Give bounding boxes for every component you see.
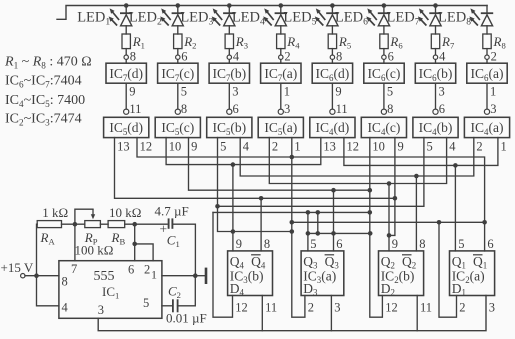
wire pin1 to ground — [162, 275, 195, 277]
node rail junction — [382, 3, 387, 8]
pin number 11 — [129, 102, 141, 116]
wire — [280, 49, 282, 55]
svg-text:2: 2 — [284, 50, 290, 64]
LED8 light arrow 2 — [469, 16, 478, 25]
label RB — [111, 230, 126, 247]
wire rail Q3bar: IC5(c).9 to IC4(c).10 — [189, 138, 370, 191]
pin number 12 — [235, 301, 248, 315]
pin number 5 — [458, 237, 464, 251]
node junction Q4 — [231, 162, 236, 167]
label R4 — [286, 34, 300, 51]
label R6 — [389, 34, 403, 51]
svg-text:IC6~IC7:7404: IC6~IC7:7404 — [5, 74, 82, 90]
pin terminal — [278, 109, 283, 114]
pin number 3 — [490, 102, 496, 116]
pin number 1 — [151, 268, 157, 282]
node rail junction — [124, 3, 129, 8]
wire Q4 riser — [232, 165, 234, 251]
inverter IC6(a) — [467, 63, 507, 83]
svg-text:6: 6 — [233, 102, 239, 116]
label C1 plus — [160, 222, 168, 237]
pin number 3 — [98, 303, 104, 317]
svg-text:8: 8 — [419, 237, 425, 251]
wire — [383, 49, 385, 55]
svg-text:11: 11 — [420, 301, 432, 315]
wire C2 to ground node — [178, 276, 196, 306]
svg-text:9: 9 — [392, 237, 398, 251]
pin number 2 — [284, 50, 290, 64]
resistor RB — [108, 221, 125, 228]
svg-text:11: 11 — [129, 102, 141, 116]
wire rail Q3 — [213, 211, 370, 213]
pin number 2 — [272, 140, 278, 154]
wire rail Q4bar: IC5(d).13 rail — [115, 138, 395, 199]
pin number 4 — [62, 301, 69, 315]
pin terminal 8 — [330, 55, 334, 59]
svg-text:6: 6 — [487, 237, 493, 251]
LED5 light arrow 2 — [315, 16, 324, 25]
svg-text:4: 4 — [62, 301, 69, 315]
wire rail Q4: IC5(c).10 to IC4(d).13 — [166, 138, 321, 165]
pin number 1 — [294, 140, 300, 154]
label D1 — [452, 281, 466, 298]
wire — [435, 6, 437, 14]
wire — [280, 6, 282, 14]
svg-text:3: 3 — [232, 85, 238, 99]
pin number 6 — [336, 237, 342, 251]
wire rail IC4(b).5 — [218, 138, 424, 207]
svg-text:3: 3 — [490, 102, 496, 116]
node rail junction — [433, 3, 438, 8]
wire Q2 riser — [388, 184, 390, 251]
pin number 8 — [336, 50, 342, 64]
wire pin5 to C2 — [162, 305, 172, 307]
LED3 light arrow 1 — [213, 8, 223, 20]
label IC7(c) — [161, 66, 194, 83]
wire IC4(c).10 / D2 feedback — [370, 138, 383, 318]
svg-text:10: 10 — [169, 140, 182, 154]
pin number 9 — [236, 237, 242, 251]
node junction Q2 jog — [387, 233, 392, 238]
pin number 6 — [181, 50, 187, 64]
wire to ground symbol — [195, 275, 205, 277]
node junction R6 end — [368, 188, 373, 193]
wire — [125, 6, 127, 14]
wire C1 to ground node — [172, 224, 195, 276]
node junction Q2bar — [414, 174, 419, 179]
svg-text:9: 9 — [236, 237, 242, 251]
wire rail Q2bar: IC5(b).4 to IC4(a).2 — [240, 138, 474, 176]
label Q1 bar — [473, 254, 483, 256]
wire stub — [317, 212, 319, 233]
svg-text:0.01 µF: 0.01 µF — [166, 311, 207, 326]
pin number 4 — [449, 140, 456, 154]
nand gate IC5(b) — [207, 117, 252, 137]
pin number 9 — [392, 237, 398, 251]
label IC3(a) — [303, 269, 336, 286]
svg-text:4: 4 — [439, 50, 446, 64]
pin number 2 — [144, 263, 150, 277]
label Q4bar text — [251, 254, 266, 271]
svg-text:8: 8 — [181, 102, 187, 116]
inverter IC7(b) — [209, 63, 249, 83]
LED8 light arrow 1 — [470, 8, 480, 20]
svg-text:6: 6 — [128, 263, 134, 277]
pin number 4 — [233, 50, 240, 64]
node rail junction — [176, 3, 181, 8]
node junction Q2 — [387, 181, 392, 186]
wire +15V to pin8 — [25, 275, 59, 277]
svg-text:3: 3 — [334, 301, 340, 315]
svg-text:13: 13 — [117, 140, 130, 154]
svg-text:555: 555 — [94, 269, 115, 284]
node junction Q3 lane — [306, 231, 311, 236]
wire — [435, 49, 437, 55]
flip-flop IC2(b) — [379, 251, 424, 296]
LED5 light arrow 1 — [316, 8, 326, 20]
svg-text:6: 6 — [388, 50, 394, 64]
pin number 6 — [439, 102, 445, 116]
wire RP to RB — [100, 223, 108, 225]
svg-text:8: 8 — [130, 50, 136, 64]
label IC4(a) — [471, 120, 504, 137]
label IC1 — [102, 284, 119, 301]
svg-text:+15 V: +15 V — [1, 260, 34, 275]
svg-text:6: 6 — [439, 102, 445, 116]
potentiometer RP — [85, 221, 101, 228]
node junction rail Q3 end — [368, 210, 373, 215]
capacitor C2 — [173, 299, 178, 312]
wire — [228, 49, 230, 55]
wire rail D1 — [292, 221, 485, 223]
LED2 light arrow 1 — [161, 8, 171, 20]
label Q1 — [452, 254, 466, 271]
wire inverter output — [331, 83, 333, 109]
pin number 9 — [335, 85, 341, 99]
label R3 — [235, 34, 248, 51]
wire — [435, 60, 437, 63]
pin number 2 — [491, 50, 497, 64]
svg-text:8: 8 — [336, 50, 342, 64]
wire — [228, 6, 230, 14]
wire IC3(b) clock pin11 — [261, 296, 263, 331]
svg-text:4: 4 — [449, 140, 456, 154]
LED4 light arrow 1 — [264, 8, 274, 20]
wire — [486, 49, 488, 55]
inverter IC6(c) — [364, 63, 404, 83]
pin number 1 — [501, 140, 507, 154]
label R2 — [183, 34, 196, 51]
pin number 6 — [128, 263, 134, 277]
label IC2(a) — [452, 269, 485, 286]
svg-text:2: 2 — [308, 301, 314, 315]
pin number 11 — [336, 102, 348, 116]
pin number 5 — [310, 237, 316, 251]
label Q2bar text — [402, 254, 416, 271]
svg-text:5: 5 — [220, 140, 226, 154]
pin number 3 — [489, 301, 495, 315]
node junction Q3 — [306, 210, 311, 215]
resistor R3 — [225, 34, 233, 49]
wire — [228, 26, 230, 34]
pin number 7 — [71, 262, 77, 276]
pin number 8 — [419, 237, 425, 251]
LED LED1 — [120, 13, 132, 26]
label IC6(a) — [471, 66, 504, 83]
label Q3 bar — [325, 254, 335, 256]
pin terminal 6 — [382, 55, 386, 59]
pin number 12 — [385, 301, 398, 315]
LED LED3 — [223, 13, 235, 26]
pin number 5 — [427, 140, 433, 154]
label IC6(c) — [367, 66, 400, 83]
node junction G3L — [215, 204, 220, 209]
flip-flop IC3(a) — [301, 251, 344, 296]
svg-text:IC4~IC5: 7400: IC4~IC5: 7400 — [5, 93, 85, 109]
LED3 light arrow 2 — [212, 16, 221, 25]
wire inverter output — [383, 83, 385, 109]
label Q2 — [381, 254, 395, 271]
pin number 4 — [243, 140, 250, 154]
label LED7 — [387, 10, 420, 28]
wire Q1 riser — [454, 165, 456, 251]
pin number 3 — [334, 301, 340, 315]
label IC2(b) — [381, 269, 415, 286]
label C2 — [168, 284, 181, 301]
wire — [125, 60, 127, 63]
svg-text:8: 8 — [264, 237, 270, 251]
wire — [331, 26, 333, 34]
label 10 kOhm — [109, 205, 141, 220]
RP wiper arrow — [91, 209, 95, 219]
LED1 light arrow 1 — [110, 8, 120, 20]
svg-text:9: 9 — [191, 140, 197, 154]
label Q4 — [230, 254, 245, 271]
pin number 13 — [117, 140, 130, 154]
node ground junction — [193, 273, 198, 278]
wire node to pin6 — [134, 224, 136, 261]
wire — [280, 60, 282, 63]
pin number 5 — [220, 140, 226, 154]
svg-text:5: 5 — [181, 85, 187, 99]
label R5 — [338, 34, 351, 51]
nand gate IC5(a) — [258, 117, 303, 137]
wire Q3 riser — [307, 212, 309, 251]
label IC4(c) — [367, 120, 400, 137]
pin number 3 — [284, 102, 290, 116]
pin terminal 2 — [485, 55, 489, 59]
wire — [383, 6, 385, 14]
label +15 V — [1, 260, 34, 275]
svg-text:3: 3 — [284, 102, 290, 116]
label D2 — [381, 281, 395, 298]
LED LED5 — [326, 13, 338, 26]
label R1 — [132, 34, 145, 51]
pin number 12 — [347, 140, 360, 154]
wire rail Q1: IC4(d).12 to IC4(a).1 — [344, 138, 498, 166]
svg-text:12: 12 — [347, 140, 360, 154]
nand gate IC4(a) — [464, 117, 509, 137]
resistor R4 — [277, 34, 285, 49]
svg-text:5: 5 — [427, 140, 433, 154]
wire Q4bar riser — [260, 198, 262, 251]
node junction stub bottom — [316, 231, 321, 236]
wire rail Q2: IC5(a).2 to IC4(b).4 — [269, 138, 446, 184]
wire IC5(b).5 drop and lane to D3 — [218, 138, 292, 232]
pin terminal — [330, 109, 335, 114]
svg-text:IC2~IC3:7474: IC2~IC3:7474 — [5, 112, 82, 128]
node rail junction — [227, 3, 232, 8]
svg-text:12: 12 — [385, 301, 398, 315]
pin number 8 — [181, 102, 187, 116]
LED6 light arrow 1 — [367, 8, 377, 20]
label IC6~IC7 7404 — [5, 74, 82, 90]
svg-text:1: 1 — [151, 268, 157, 282]
svg-text:1 kΩ: 1 kΩ — [42, 205, 68, 220]
svg-text:1: 1 — [294, 140, 300, 154]
node junction G4R — [290, 155, 295, 160]
wire +15V up to RA — [36, 224, 39, 276]
wire IC3(a) clock pin3 — [330, 296, 332, 331]
label Q3bar text — [325, 254, 340, 271]
node rail junction — [279, 3, 284, 8]
label 0.01 uF — [166, 311, 207, 326]
node junction railC left — [290, 220, 295, 225]
label IC5(c) — [161, 120, 194, 137]
label IC5(b) — [212, 120, 246, 137]
svg-text:2: 2 — [144, 263, 150, 277]
wire — [435, 26, 437, 34]
label IC7(d) — [109, 66, 143, 83]
LED LED4 — [275, 13, 287, 26]
svg-text:10: 10 — [372, 140, 385, 154]
node +15V junction — [34, 273, 39, 278]
node junction Q3bar — [331, 188, 336, 193]
svg-text:2: 2 — [491, 50, 497, 64]
wire lane Q3bar to D2 drop — [308, 232, 370, 234]
wire inverter output — [486, 83, 488, 109]
wire Q2bar riser — [415, 176, 417, 251]
svg-text:2: 2 — [459, 301, 465, 315]
wire D4 feedback drop — [213, 212, 233, 317]
label IC6(b) — [419, 66, 453, 83]
wire D1 feedback drop — [439, 222, 457, 317]
pin terminal — [484, 109, 489, 114]
pin number 11 — [420, 301, 432, 315]
label IC5(d) — [109, 120, 143, 137]
svg-text:12: 12 — [140, 140, 153, 154]
pin terminal 4 — [227, 55, 231, 59]
pin terminal 4 — [433, 55, 437, 59]
LED LED8 — [481, 13, 493, 26]
pin number 9 — [398, 140, 404, 154]
wire — [177, 60, 179, 63]
pin terminal — [175, 109, 180, 114]
node junction D1 branch — [437, 220, 442, 225]
pin terminal — [124, 109, 129, 114]
resistor R8 — [483, 34, 491, 49]
pin number 2 — [308, 301, 314, 315]
label IC4~IC5 7400 — [5, 93, 85, 109]
svg-text:3: 3 — [489, 301, 495, 315]
svg-text:1: 1 — [490, 85, 496, 99]
pin number 2 — [459, 301, 465, 315]
wire — [331, 49, 333, 55]
wire — [125, 26, 127, 34]
svg-text:3: 3 — [439, 85, 445, 99]
pin number 6 — [233, 102, 239, 116]
svg-text:11: 11 — [336, 102, 348, 116]
label RP — [84, 230, 98, 247]
svg-text:5: 5 — [310, 237, 316, 251]
wire IC5(a) pin1 drop — [291, 138, 293, 157]
nand gate IC4(d) — [310, 117, 355, 137]
svg-text:11: 11 — [265, 301, 277, 315]
terminal +15V — [21, 274, 25, 278]
wire IC2(b) clock pin11 — [416, 296, 418, 331]
wire IC4(c).9 drop jog to Q2 — [389, 138, 395, 236]
label IC3(b) — [230, 269, 264, 286]
label LED1 — [77, 10, 110, 28]
pin terminal — [433, 109, 438, 114]
label IC7(b) — [212, 66, 246, 83]
svg-text:4: 4 — [243, 140, 250, 154]
node junction stub top — [316, 210, 321, 215]
wire — [331, 6, 333, 14]
wire — [486, 26, 488, 34]
pin number 5 — [387, 85, 393, 99]
ground — [205, 268, 208, 284]
label 4.7 uF — [155, 204, 189, 219]
wire — [177, 26, 179, 34]
svg-text:10 kΩ: 10 kΩ — [109, 205, 141, 220]
LED4 light arrow 2 — [263, 16, 272, 25]
label RA — [40, 230, 56, 247]
inverter IC6(d) — [312, 63, 352, 83]
timer 555 IC1 — [59, 261, 162, 319]
svg-text:9: 9 — [129, 85, 135, 99]
pin number 8 — [130, 50, 136, 64]
wire inverter output — [435, 83, 437, 109]
label IC2~IC3 7474 — [5, 112, 82, 128]
resistor R1 — [122, 34, 130, 49]
pin number 5 — [143, 296, 149, 310]
LED7 light arrow 2 — [418, 16, 427, 25]
wire inverter output — [228, 83, 230, 109]
label Q1bar text — [473, 254, 487, 271]
resistor R6 — [380, 34, 388, 49]
label 1 kOhm — [42, 205, 68, 220]
label Q2 bar — [402, 254, 412, 256]
pin number 2 — [476, 140, 482, 154]
resistor R2 — [174, 34, 182, 49]
svg-text:8: 8 — [62, 275, 68, 289]
svg-text:5: 5 — [458, 237, 464, 251]
pin number 6 — [388, 50, 394, 64]
wire inverter output — [125, 83, 127, 109]
label 555 — [94, 269, 115, 284]
label 100 kOhm — [75, 243, 114, 258]
wire — [280, 26, 282, 34]
label LED4 — [232, 10, 265, 28]
svg-text:6: 6 — [336, 237, 342, 251]
node junction Q3bar lane — [331, 231, 336, 236]
node rail junction — [330, 3, 335, 8]
wire — [177, 49, 179, 55]
svg-text:4.7 µF: 4.7 µF — [155, 204, 189, 219]
svg-text:9: 9 — [335, 85, 341, 99]
nand gate IC4(b) — [413, 117, 458, 137]
